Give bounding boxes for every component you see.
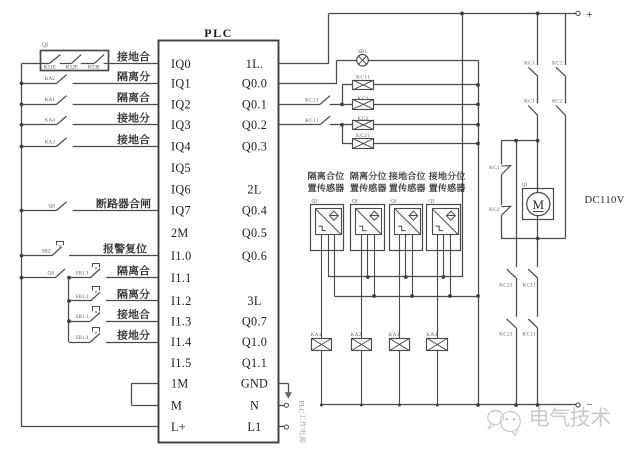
svg-text:Q0.6: Q0.6 <box>242 249 267 263</box>
pin label I1.3 <box>171 314 192 328</box>
wire KC2 chain down to motor loop <box>565 115 567 238</box>
wire node to motor top <box>537 141 539 193</box>
svg-text:I1.3: I1.3 <box>171 314 192 328</box>
pin label IQ7 <box>171 204 191 218</box>
svg-text:2M: 2M <box>171 226 189 240</box>
pin label I1.5 <box>171 356 192 370</box>
pin label L+ <box>171 420 186 434</box>
svg-text:IQ6: IQ6 <box>171 182 191 196</box>
wire electromagnet chain to loop bottom <box>501 215 503 238</box>
pushbutton SB1.2 <box>69 287 159 302</box>
wire return bus vertical <box>478 60 480 405</box>
terminal N <box>284 403 288 407</box>
svg-text:QI: QI <box>391 199 397 205</box>
wire node down via interlock branch <box>516 141 518 267</box>
relay coil KC2 <box>353 116 374 129</box>
wire L+ bus to PLC L+ pin <box>21 426 159 428</box>
pin label Q1.0 <box>242 335 267 349</box>
svg-text:QI: QI <box>312 199 318 205</box>
wire sensor B1 return pin to row B <box>334 251 336 297</box>
wire KA2 coil to bottom rail <box>360 351 363 407</box>
wire sensor B2 supply pin to row A <box>367 251 369 278</box>
svg-text:QI: QI <box>352 199 358 205</box>
pin label IQ2 <box>171 98 191 112</box>
wire between KC1 contacts <box>537 76 539 103</box>
svg-text:Q0.4: Q0.4 <box>242 204 267 218</box>
svg-text:K51E: K51E <box>44 65 56 71</box>
switch box QI (breaker aux contacts) <box>41 42 109 71</box>
wire Q0.1 out <box>278 104 320 106</box>
contact KC1 lower <box>524 99 538 116</box>
wire KA3 coil to bottom rail <box>398 351 401 407</box>
wire + supply top rail <box>329 13 577 15</box>
relay coil KC21 <box>353 133 374 148</box>
wire contact to KC1 coil <box>330 104 353 106</box>
wire L+ left bus vertical <box>21 64 23 427</box>
pin label Q0.0 <box>242 77 267 91</box>
junction node/X516 <box>514 139 518 143</box>
wire sensor B1 output pin to KA1 coil <box>321 251 323 339</box>
pin label Q0.4 <box>242 204 267 218</box>
wire sensor B4 supply pin to row A <box>443 251 445 278</box>
pushbutton SB2 (alarm reset) <box>22 242 159 256</box>
contact KA4 (relay KA4 NO) <box>22 116 159 125</box>
pin label IQ1 <box>171 77 191 91</box>
relay coil KA4 <box>426 332 447 351</box>
wire contact to KC2 coil <box>330 124 353 126</box>
wire sensor return row B <box>334 296 478 298</box>
svg-text:KC11: KC11 <box>305 118 319 124</box>
pin label 1M <box>171 377 189 391</box>
svg-text:KC21: KC21 <box>499 331 513 337</box>
svg-text:KC2: KC2 <box>552 60 563 66</box>
svg-text:1M: 1M <box>171 377 189 391</box>
contact KA1 (relay KA1 NO) <box>22 96 159 105</box>
junction left bus row IQ1 <box>20 82 24 86</box>
wire loop bottom line <box>501 238 565 240</box>
wire N pin to terminal <box>278 405 284 407</box>
contact KC21 NO on Q0.1 row <box>305 96 330 105</box>
label 隔离合 + wire to PLC I11 <box>118 265 150 275</box>
contact KC2 upper <box>552 60 565 76</box>
svg-text:KC11: KC11 <box>356 75 370 81</box>
svg-text:Q1.1: Q1.1 <box>242 356 267 370</box>
svg-text:SB1.1: SB1.1 <box>75 270 88 276</box>
label PLC工作电源 (vertical) <box>297 401 306 443</box>
junction left bus row IQ4 <box>20 145 24 149</box>
svg-text:KA3: KA3 <box>388 332 399 338</box>
svg-text:K53E: K53E <box>88 65 100 71</box>
junction return bus / KC2 row <box>476 123 480 127</box>
wire top rail to KC2 contacts <box>565 13 567 65</box>
wire top rail to KC1 contacts <box>536 12 540 66</box>
pin label 2L <box>247 182 261 196</box>
svg-text:KA4: KA4 <box>45 118 56 124</box>
svg-text:I1.0: I1.0 <box>171 249 192 263</box>
svg-text:IQ2: IQ2 <box>171 98 191 112</box>
wire KC21 coil to return bus <box>374 143 478 145</box>
pin label IQ0 <box>171 57 191 71</box>
svg-text:GND: GND <box>241 377 268 391</box>
wire KC21 chain to bottom rail <box>514 328 518 407</box>
junction return bus / KC21 row <box>476 142 480 146</box>
junction Q0.1/KC11 branch <box>340 103 344 107</box>
svg-text:SB1.4: SB1.4 <box>75 335 88 341</box>
pin label Q0.5 <box>242 226 267 240</box>
junction row A sensor pin <box>366 275 370 279</box>
svg-text:Q8: Q8 <box>49 203 56 209</box>
pin label Q1.1 <box>242 356 267 370</box>
relay coil KA2 <box>351 332 372 351</box>
svg-text:KC1: KC1 <box>489 165 500 171</box>
label 隔离合 + wire to PLC IQ2 <box>118 92 150 102</box>
label 断路器合闸 <box>97 198 151 208</box>
junction motor/loop bottom <box>536 237 540 241</box>
svg-text:PLC: PLC <box>297 401 305 414</box>
svg-text:PLC: PLC <box>204 26 233 40</box>
svg-text:I1.2: I1.2 <box>171 294 192 308</box>
wire branch down to KC21 coil <box>342 125 353 144</box>
wire Q0.2 out <box>278 124 320 126</box>
pushbutton SB1.1 <box>69 264 159 278</box>
svg-text:QI: QI <box>429 199 435 205</box>
terminal L1 <box>284 425 288 429</box>
junction left bus row I11 <box>20 276 24 280</box>
wire between electromagnets <box>501 175 503 206</box>
wire branch up to KC11 coil <box>342 85 353 105</box>
pin label L1 <box>247 420 261 434</box>
wire sensor B3 supply pin to row A <box>405 251 407 278</box>
wire KC1 chain to motor node <box>537 115 539 140</box>
pin label Q0.2 <box>242 118 267 132</box>
svg-text:IQ1: IQ1 <box>171 77 191 91</box>
junction return bus / KC11 row <box>476 83 480 87</box>
electromagnet KC2 (latch) <box>489 206 511 215</box>
svg-text:KA1: KA1 <box>311 332 322 338</box>
pin label I1.4 <box>171 335 192 349</box>
svg-text:1L.: 1L. <box>246 57 264 71</box>
wire motor node line <box>501 140 537 142</box>
pin label IQ3 <box>171 118 191 132</box>
svg-text:Q1.0: Q1.0 <box>242 335 267 349</box>
pin label Q0.3 <box>242 140 267 154</box>
junction row B sensor pin <box>372 294 376 298</box>
junction left bus row I10 <box>20 254 24 258</box>
sensor B4 (接地分位置传感器) <box>427 171 466 250</box>
wire sensor B3 return pin to row B <box>412 251 414 297</box>
svg-text:KA3: KA3 <box>45 139 56 145</box>
svg-text:SB1.2: SB1.2 <box>75 294 88 300</box>
relay coil KC11 <box>353 75 374 90</box>
wire sensor supply row A <box>328 276 462 278</box>
junction node after Q8 <box>67 276 71 280</box>
electromagnet KC1 (latch) <box>489 165 511 175</box>
sensor B1 (隔离合位置传感器) <box>308 171 344 250</box>
junction branch row I1.2 <box>67 299 71 303</box>
junction node/motor <box>536 139 540 143</box>
svg-text:KC11: KC11 <box>522 282 536 288</box>
label 报警复位 <box>103 243 146 253</box>
svg-text:SB1.3: SB1.3 <box>75 314 88 320</box>
contact KC21 lower <box>499 319 516 337</box>
wire motor bottom to loop <box>537 216 539 239</box>
relay coil KA1 <box>311 332 332 351</box>
svg-text:QI: QI <box>42 42 49 49</box>
terminal + supply <box>576 7 593 21</box>
wire 1L pin to top rail <box>278 13 329 63</box>
svg-text:Q0.2: Q0.2 <box>242 118 267 132</box>
svg-text:Q8: Q8 <box>48 270 55 276</box>
svg-text:Q0.3: Q0.3 <box>242 140 267 154</box>
wire + rail to sensor supply row A <box>462 13 464 277</box>
contact Q8 aux on I1.1 row <box>22 269 70 278</box>
pin label N <box>250 398 259 412</box>
motor M (Q1 operating mechanism) <box>522 182 554 220</box>
wire KC2 coil to return bus <box>374 124 478 126</box>
svg-text:M: M <box>533 197 545 212</box>
pin label Q0.7 <box>242 314 267 328</box>
pushbutton SB1.4 <box>69 328 159 343</box>
wire L1 pin to terminal <box>278 426 284 428</box>
pin label I1.0 <box>171 249 192 263</box>
pin label M <box>171 398 182 412</box>
svg-text:−: − <box>587 399 593 411</box>
svg-text:L1: L1 <box>247 420 261 434</box>
pin label Q0.6 <box>242 249 267 263</box>
wire Q0.0 to lamp branch <box>278 60 337 83</box>
wire jumper 1M to M <box>132 383 159 405</box>
svg-text:KA4: KA4 <box>426 332 437 338</box>
wire GND pin out <box>278 383 288 393</box>
junction top rail / row A bus <box>460 12 464 16</box>
svg-text:KC1: KC1 <box>524 60 535 66</box>
contact KC21 upper (below motor) <box>499 269 516 288</box>
wire sensor B2 output pin to KA2 coil <box>361 251 363 339</box>
wire sensor B4 output pin to KA4 coil <box>437 251 439 339</box>
svg-text:I1.4: I1.4 <box>171 335 192 349</box>
junction branch row I1.3 <box>67 319 71 323</box>
pin label Q0.1 <box>242 98 267 112</box>
svg-text:IQ3: IQ3 <box>171 118 191 132</box>
wire - supply bottom rail <box>322 404 577 406</box>
contact Q8 (breaker close command) <box>22 202 159 211</box>
contact KC11 NO on Q0.2 row <box>305 116 330 125</box>
svg-text:DC110V: DC110V <box>585 195 625 206</box>
label 隔离分 + wire to PLC IQ1 <box>118 71 150 81</box>
svg-text:Q0.7: Q0.7 <box>242 314 267 328</box>
svg-text:KC1: KC1 <box>524 99 535 105</box>
pin label I1.1 <box>171 271 192 285</box>
svg-text:KC2: KC2 <box>552 99 563 105</box>
svg-text:KA2: KA2 <box>351 332 362 338</box>
contact KA2 (relay KA2 NO) <box>22 75 159 84</box>
pin label IQ6 <box>171 182 191 196</box>
wire between KC11 contacts <box>537 278 539 317</box>
wire lamp to return bus <box>368 60 478 62</box>
wire sensor B4 return pin to row B <box>450 251 452 297</box>
svg-text:KC1: KC1 <box>358 96 370 102</box>
svg-text:IQ4: IQ4 <box>171 140 191 154</box>
svg-text:2L: 2L <box>247 182 261 196</box>
svg-text:KC21: KC21 <box>356 133 371 139</box>
wire motor line to KC11 contacts <box>537 239 539 268</box>
svg-text:L+: L+ <box>171 420 186 434</box>
lamp SB1 (signal lamp) <box>337 49 368 66</box>
junction left bus row IQ2 <box>20 103 24 107</box>
pin label GND <box>241 377 268 391</box>
wire vertical branch feeding SB1.2-SB1.4 <box>68 278 70 342</box>
wire sensor B3 output pin to KA3 coil <box>399 251 401 339</box>
svg-text:SB2: SB2 <box>41 248 50 254</box>
wire KC1 coil to return bus <box>374 104 478 106</box>
wire KC11 coil to return bus <box>374 84 478 86</box>
wire QI box to PLC IQ0, label 接地合 <box>108 51 159 63</box>
pin label 2M <box>171 226 189 240</box>
svg-text:KC2: KC2 <box>358 116 370 122</box>
svg-text:IQ5: IQ5 <box>171 161 191 175</box>
svg-text:Q0.5: Q0.5 <box>242 226 267 240</box>
junction Q0.2/KC21 branch <box>340 123 344 127</box>
junction return bus / bottom rail <box>476 403 480 407</box>
contact KC2 lower <box>552 99 565 116</box>
svg-text:I1.1: I1.1 <box>171 271 192 285</box>
svg-text:KC21: KC21 <box>305 98 319 104</box>
junction row A sensor pin <box>442 275 446 279</box>
wire between KC21 contacts <box>516 278 518 317</box>
label 接地合 + wire to PLC I13 <box>117 309 149 319</box>
contact KC1 upper <box>524 60 538 76</box>
relay coil KA3 <box>388 332 409 351</box>
svg-text:I1.5: I1.5 <box>171 356 192 370</box>
junction left bus row IQ7 <box>20 209 24 213</box>
junction row B sensor pin <box>410 294 414 298</box>
svg-text:KC21: KC21 <box>499 282 513 288</box>
svg-text:SB1: SB1 <box>358 49 367 55</box>
label 接地合 + wire to PLC IQ4 <box>117 134 149 144</box>
svg-text:QI: QI <box>522 182 528 188</box>
svg-text:KC2: KC2 <box>489 207 500 213</box>
junction return bus / sensor row B <box>476 294 480 298</box>
contact KC11 upper (below motor) <box>522 269 537 288</box>
svg-text:M: M <box>171 398 182 412</box>
pin label I1.2 <box>171 294 192 308</box>
sensor B3 (接地合位置传感器) <box>389 171 425 250</box>
label 接地分 + wire to PLC IQ3 <box>117 113 149 123</box>
svg-text:IQ7: IQ7 <box>171 204 191 218</box>
label 接地分 + wire to PLC I14 <box>117 330 149 340</box>
relay coil KC1 <box>353 96 374 110</box>
svg-text:KC11: KC11 <box>522 331 536 337</box>
svg-text:3L: 3L <box>247 294 261 308</box>
wire between KC2 contacts <box>565 76 567 103</box>
watermark text 电气技术 <box>531 407 610 427</box>
svg-text:K52E: K52E <box>66 65 78 71</box>
label 隔离分 + wire to PLC I12 <box>118 289 150 299</box>
pin label 3L <box>247 294 261 308</box>
pushbutton SB1.3 <box>69 307 159 322</box>
svg-text:KA2: KA2 <box>45 76 56 82</box>
contact KA3 (relay KA3 NO) <box>22 138 159 147</box>
wire sensor B1 supply pin to row A <box>328 251 330 278</box>
wire KC11 chain to bottom rail <box>536 328 540 407</box>
svg-text:+: + <box>586 7 593 21</box>
sensor B2 (隔离分位置传感器) <box>350 171 386 250</box>
watermark logo <box>488 410 521 435</box>
wire KA1 coil to bottom rail <box>320 351 323 407</box>
PLC U1 box <box>159 26 279 443</box>
pin label 1L. <box>246 57 264 71</box>
contact KC11 lower <box>522 319 537 337</box>
svg-text:N: N <box>250 398 259 412</box>
svg-text:IQ0: IQ0 <box>171 57 191 71</box>
ground symbol (chassis arrow) <box>285 392 292 398</box>
wire sensor B2 return pin to row B <box>374 251 376 297</box>
pin label IQ4 <box>171 140 191 154</box>
wire KA4 coil to bottom rail <box>436 351 439 407</box>
wire left bus to QI switch box <box>22 63 41 65</box>
pin label IQ5 <box>171 161 191 175</box>
terminal - supply <box>576 399 593 411</box>
junction left bus row IQ3 <box>20 123 24 127</box>
svg-text:Q0.1: Q0.1 <box>242 98 267 112</box>
wire node to KC1 electromagnet <box>501 141 503 165</box>
svg-text:KA1: KA1 <box>45 97 56 103</box>
junction row A sensor pin <box>404 275 408 279</box>
junction row B sensor pin <box>448 294 452 298</box>
label DC110V <box>585 195 625 206</box>
junction return bus / KC1 row <box>476 103 480 107</box>
svg-text:Q0.0: Q0.0 <box>242 77 267 91</box>
